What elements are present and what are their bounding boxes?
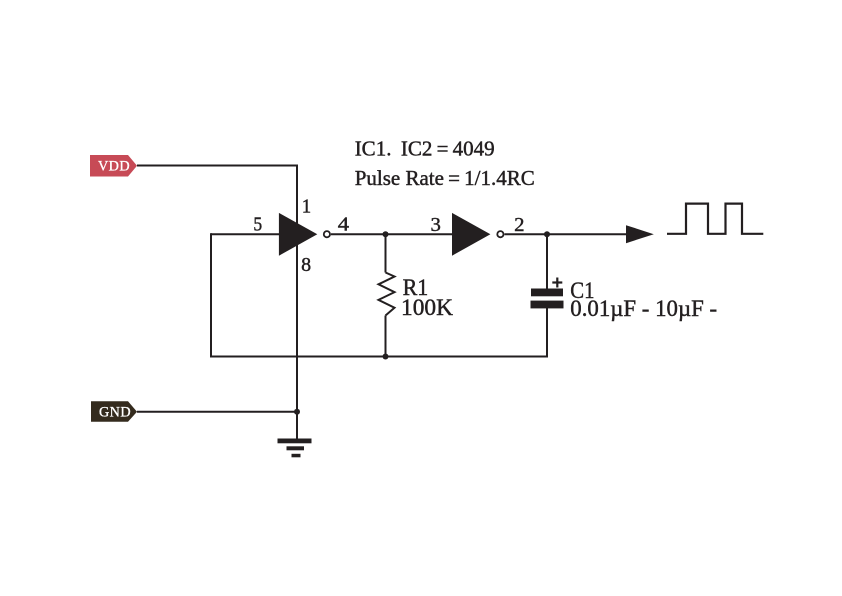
svg-text:100K: 100K [401,295,453,320]
svg-text:5: 5 [253,214,262,236]
wire left feedback vertical [210,233,212,356]
inverter IC2 triangle [452,213,490,256]
svg-text:0.01µF - 10µF -: 0.01µF - 10µF - [570,296,717,321]
svg-text:IC1. IC2 = 4049: IC1. IC2 = 4049 [355,137,495,161]
capacitor C1 top plate [531,289,563,297]
capacitor C1 polarity plus sign [552,278,562,288]
junction node: GND wire / main vertical [294,409,300,415]
junction node: IC2 output / C1 top [544,231,550,237]
svg-text:8: 8 [301,254,311,276]
junction node: IC1 output / R1 top [383,231,389,237]
junction node: R1 bottom / feedback wire [383,354,389,360]
square wave output waveform [667,204,763,234]
wire VDD to main vertical [137,165,297,167]
wire capacitor top lead [546,234,548,289]
inverter IC1 triangle [279,213,317,256]
net label GND [91,401,137,421]
resistor R1 zigzag [379,273,395,316]
wire pin5 input [211,233,279,235]
inverter IC1 output bubble [324,231,330,237]
ground symbol [278,439,312,458]
wire resistor top lead [385,234,387,272]
svg-text:Pulse Rate = 1/1.4RC: Pulse Rate = 1/1.4RC [355,166,535,190]
wire bubble1 to IC2 input [331,233,452,235]
svg-text:GND: GND [99,405,131,421]
svg-text:1: 1 [302,195,311,217]
wire bottom feedback [210,356,547,358]
capacitor C1 bottom plate [531,301,564,309]
svg-text:2: 2 [514,214,524,236]
svg-text:VDD: VDD [98,158,130,174]
wire GND to ground node [137,411,297,413]
wire resistor bottom lead [385,316,387,357]
wire IC2 output to arrow [505,233,629,235]
net label VDD [90,155,137,177]
wire main vertical VDD rail down through IC1 to ground [296,165,298,440]
wire capacitor bottom lead [546,308,548,358]
svg-text:4: 4 [338,213,349,235]
svg-text:3: 3 [431,214,441,236]
output arrowhead [626,225,654,243]
inverter IC2 output bubble [497,231,503,237]
